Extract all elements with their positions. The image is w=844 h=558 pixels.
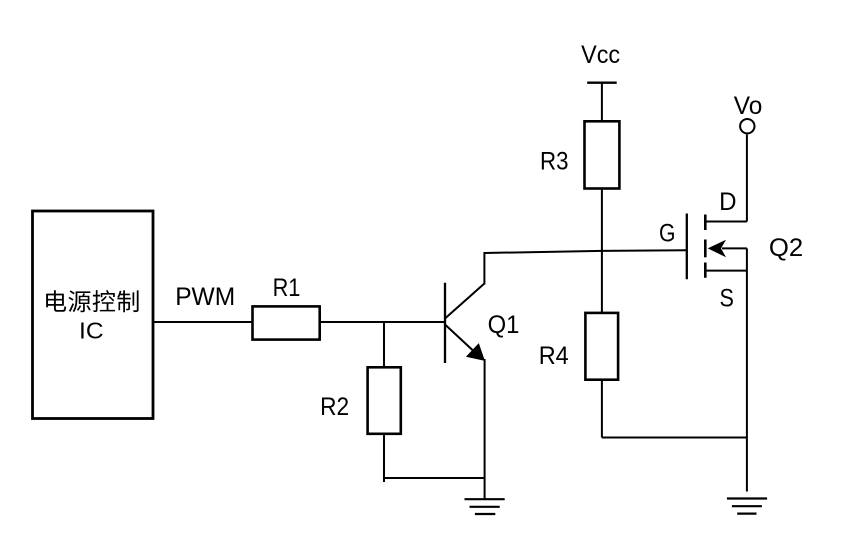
svg-text:D: D	[719, 188, 736, 216]
ground (Q2 source)	[727, 499, 767, 514]
Vcc terminal bar	[587, 82, 617, 84]
transistor Q1: emitter arrowhead	[466, 343, 485, 361]
wire: Q1 emitter down to ground	[484, 359, 486, 499]
transistor Q1: emitter diagonal	[445, 325, 473, 351]
svg-text:S: S	[720, 285, 734, 313]
resistor R4	[585, 313, 618, 380]
wire: R4 bottom to Q2 source net	[602, 437, 747, 439]
transistor Q2: channel dash middle	[704, 240, 707, 258]
wire: Q2 source horizontal	[705, 270, 747, 272]
wire: Q2 drain up to Vo	[746, 135, 748, 222]
transistor Q2: channel dash top	[704, 215, 707, 231]
resistor R1	[253, 306, 320, 339]
svg-text:IC: IC	[79, 317, 104, 343]
wire: Q2 source down to ground	[746, 248, 748, 491]
wire: R2 bottom down	[383, 434, 385, 482]
transistor Q1: collector diagonal	[445, 284, 484, 319]
wire: node to R2 top	[383, 322, 385, 367]
transistor Q2: channel dash bottom	[704, 263, 707, 278]
svg-text:Vo: Vo	[734, 92, 763, 120]
wire: Q1 collector to gate node (horizontal)	[484, 250, 687, 253]
transistor Q1: base bar	[444, 283, 446, 363]
svg-text:R1: R1	[273, 274, 301, 302]
wire: R2 bottom to Q1 emitter	[383, 477, 484, 479]
wire: R4 bottom down	[601, 380, 603, 438]
svg-text:Q1: Q1	[488, 311, 520, 339]
svg-text:R2: R2	[320, 393, 349, 421]
wire: R3 bottom through gate node to R4 top	[601, 189, 603, 313]
wire: IC output to R1 (PWM net)	[154, 321, 253, 323]
resistor R3	[585, 121, 620, 188]
svg-text:Q2: Q2	[769, 234, 803, 262]
wire: Q1 collector up	[483, 252, 485, 285]
wire: Vcc to R3	[601, 83, 603, 122]
transistor Q2: body arrow (points to channel)	[708, 240, 726, 258]
terminal Vo circle	[740, 119, 754, 133]
svg-text:Vcc: Vcc	[581, 41, 620, 69]
label: 电源控制 (power control)	[46, 290, 66, 312]
IC U1: power control IC box	[33, 211, 154, 419]
wire: Q2 body to source vertical	[722, 247, 747, 249]
svg-text:PWM: PWM	[175, 283, 235, 311]
svg-text:R4: R4	[539, 342, 569, 370]
svg-text:R3: R3	[540, 148, 569, 176]
wire: Q2 drain horizontal	[705, 221, 747, 223]
svg-text:G: G	[659, 220, 676, 248]
ground (Q1 emitter)	[465, 499, 505, 514]
wire: R1 to Q1 base	[320, 321, 444, 323]
resistor R2	[368, 367, 401, 434]
transistor Q2: gate bar	[686, 214, 688, 280]
